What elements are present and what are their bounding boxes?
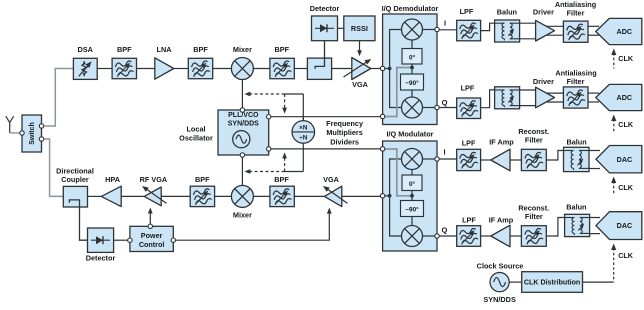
svg-text:RSSI: RSSI xyxy=(351,24,368,33)
detector RX xyxy=(312,16,338,41)
svg-text:I/Q Modulator: I/Q Modulator xyxy=(386,130,433,139)
svg-text:CLK: CLK xyxy=(618,183,634,192)
label BPF xyxy=(274,45,289,54)
wire demod I out xyxy=(423,29,435,31)
wire PLL to demod LO xyxy=(271,116,381,118)
block RSSI xyxy=(344,16,375,41)
wire TXmixer-BPF xyxy=(253,195,270,197)
wire filter-balun TX Q xyxy=(546,218,564,237)
wire DSA-BPF xyxy=(97,68,112,70)
antenna xyxy=(6,116,20,133)
label VGA xyxy=(352,80,369,89)
clock arrow DAC I xyxy=(611,177,634,195)
wire mod I in xyxy=(423,158,435,160)
svg-text:Dividers: Dividers xyxy=(330,137,359,146)
wire balun-DAC Q xyxy=(590,218,600,234)
label I/Q Modulator xyxy=(386,130,433,139)
amplifier IF Amp TX I xyxy=(491,149,510,171)
wire LPF-balun I xyxy=(481,23,495,30)
svg-text:Detector: Detector xyxy=(86,254,116,263)
antialiasing filter RX I xyxy=(563,21,588,42)
wire coupler-VGA xyxy=(332,68,352,70)
label Driver xyxy=(533,77,554,86)
switch terminal bottom right xyxy=(39,137,43,141)
svg-text:I: I xyxy=(444,19,446,28)
wire RFVGA-BPF xyxy=(161,195,190,197)
wire mod-LPF TX Q xyxy=(439,235,457,237)
svg-text:−90°: −90° xyxy=(405,79,419,87)
svg-text:LPF: LPF xyxy=(462,216,476,225)
label HPA xyxy=(105,175,121,184)
label VGA TX xyxy=(323,175,340,184)
junction LO modulator xyxy=(410,194,414,198)
balun RX I xyxy=(495,20,520,42)
label Local Oscillator xyxy=(179,125,213,143)
wire LPF-balun Q xyxy=(481,90,495,108)
phase shift -90deg mod xyxy=(401,201,424,217)
low-pass filter RX Q xyxy=(457,98,481,119)
wire CLKdist to DAC clock xyxy=(583,281,614,283)
mixer mod Q xyxy=(402,226,423,247)
label I mod in xyxy=(443,148,445,157)
switch SW1 xyxy=(22,115,42,152)
wire mod Q in xyxy=(423,235,435,237)
label DSA xyxy=(77,45,93,54)
low-pass filter TX Q xyxy=(457,226,481,247)
wire BPF-LNA xyxy=(137,68,155,70)
wire demod-LPF Q xyxy=(439,107,457,109)
svg-text:LPF: LPF xyxy=(460,7,474,16)
wire balun-driver I xyxy=(520,23,537,39)
svg-text:Clock Source: Clock Source xyxy=(477,262,524,271)
mixer TX xyxy=(231,185,253,207)
amplifier VGA TX xyxy=(321,184,347,207)
label Reconst. Filter Q xyxy=(518,204,549,222)
label Balun xyxy=(566,138,586,147)
svg-text:BPF: BPF xyxy=(274,45,289,54)
frequency multiplier/divider xN xyxy=(292,94,315,172)
svg-text:BPF: BPF xyxy=(117,45,132,54)
mixer mod I xyxy=(402,149,423,170)
label Reconst. Filter I xyxy=(518,127,549,145)
block I/Q modulator xyxy=(383,141,437,251)
wire filter-ADC Q xyxy=(588,93,599,102)
svg-text:Coupler: Coupler xyxy=(61,175,89,184)
clock arrow ADC I xyxy=(611,49,634,69)
svg-text:×N: ×N xyxy=(299,125,308,132)
svg-text:RF VGA: RF VGA xyxy=(140,175,168,184)
terminal PLL top xyxy=(240,108,244,112)
svg-text:SYN/DDS: SYN/DDS xyxy=(228,120,259,127)
svg-text:ADC: ADC xyxy=(617,27,633,36)
wire PLL to modulator LO xyxy=(271,148,381,150)
amplifier LNA xyxy=(155,58,174,79)
clock arrow ADC Q xyxy=(611,115,634,134)
block I/Q demodulator xyxy=(383,14,437,125)
wire LNA-BPF xyxy=(174,68,189,70)
wire switch to directional coupler xyxy=(44,139,63,196)
wire LPF-IFamp TX Q xyxy=(481,235,491,237)
svg-text:Local: Local xyxy=(186,125,205,134)
label LNA xyxy=(157,45,173,54)
wire powercontrol to TX VGA xyxy=(176,208,332,241)
svg-text:Q: Q xyxy=(441,226,447,235)
svg-text:LPF: LPF xyxy=(462,139,476,148)
svg-text:Detector: Detector xyxy=(310,4,340,13)
svg-text:Driver: Driver xyxy=(533,8,554,17)
wire RF split demod xyxy=(390,30,402,108)
svg-text:0°: 0° xyxy=(409,53,416,61)
switch terminal top right xyxy=(39,124,43,128)
svg-text:Mixer: Mixer xyxy=(233,211,252,220)
svg-text:PLL/VCO: PLL/VCO xyxy=(228,112,259,119)
svg-text:Filter: Filter xyxy=(567,77,585,86)
block power control xyxy=(130,226,173,251)
dashed feedback lower xyxy=(244,169,303,174)
wire driver-filter Q xyxy=(545,93,563,102)
clock arrow DAC Q xyxy=(611,244,634,283)
svg-text:VGA: VGA xyxy=(323,175,340,184)
svg-text:Driver: Driver xyxy=(533,77,554,86)
label BPF xyxy=(193,45,208,54)
dashed feedback upper xyxy=(244,92,303,97)
junction RF modulator xyxy=(388,194,392,198)
wire demod-LPF I xyxy=(439,29,457,31)
amplifier driver RX I xyxy=(536,20,555,41)
block CLK distribution xyxy=(522,272,583,293)
wire BPF-coupler xyxy=(294,68,307,70)
wire LO route demod xyxy=(385,68,410,117)
band-pass filter BPF3 xyxy=(270,58,294,78)
svg-text:BPF: BPF xyxy=(195,175,210,184)
label BPF xyxy=(274,175,289,184)
svg-text:Oscillator: Oscillator xyxy=(179,134,213,143)
wire driver-filter I xyxy=(545,26,563,35)
svg-text:I: I xyxy=(443,148,445,157)
wire IFamp-filter TX Q xyxy=(510,235,521,237)
wire RF in demod xyxy=(385,68,390,70)
svg-text:0°: 0° xyxy=(409,180,416,188)
wire -90-to-mixer mod xyxy=(411,217,413,226)
terminal mod LO in xyxy=(380,147,384,151)
phase shift 0deg mod xyxy=(402,175,422,191)
band-pass filter BPF1 xyxy=(112,58,136,78)
label LPF xyxy=(460,7,474,16)
wire 0-to-mixer mod xyxy=(411,170,413,176)
wire coupler-HPA xyxy=(88,195,102,197)
svg-text:Balun: Balun xyxy=(497,8,517,17)
wire 0-to-mixer demod xyxy=(411,40,413,49)
terminal demod Q xyxy=(435,105,439,109)
wire LO to phase splitter demod xyxy=(411,64,413,74)
terminal demod LO in xyxy=(380,114,384,118)
amplifier RF VGA xyxy=(140,184,166,206)
amplifier VGA RX xyxy=(344,57,373,80)
svg-text:Power: Power xyxy=(141,231,163,240)
wire RF combine modulator xyxy=(390,159,402,236)
wire mixer-PLL xyxy=(241,80,243,108)
oscillator SYN/DDS xyxy=(490,273,509,292)
svg-text:Filter: Filter xyxy=(525,212,543,221)
terminal PLL right lower xyxy=(267,147,271,151)
svg-text:BPF: BPF xyxy=(274,175,289,184)
amplifier IF Amp TX Q xyxy=(491,225,510,247)
svg-text:CLK Distribution: CLK Distribution xyxy=(524,279,580,287)
balun TX I xyxy=(564,147,590,171)
wire filter-ADC I xyxy=(588,26,599,35)
terminal PLL right upper xyxy=(267,115,271,119)
svg-text:Multipliers: Multipliers xyxy=(326,128,363,137)
wire -90-to-mixer demod xyxy=(411,90,413,97)
wire IFamp-filter TX I xyxy=(510,159,521,161)
wire RF out modulator xyxy=(385,195,390,197)
wire oscillator-CLKdist xyxy=(509,281,522,283)
label IF Amp xyxy=(489,216,514,225)
reconstruction filter TX I xyxy=(521,149,546,170)
phase shift -90deg demod xyxy=(401,74,424,90)
label LPF xyxy=(461,84,475,93)
wire BPF-TXVGA xyxy=(294,195,324,197)
wire BPF-TXmixer xyxy=(215,195,232,197)
svg-text:−90°: −90° xyxy=(405,206,419,214)
phase shift 0deg demod xyxy=(402,49,422,65)
svg-text:Frequency: Frequency xyxy=(326,119,364,128)
label I/Q Demodulator xyxy=(382,4,439,13)
attenuator DSA xyxy=(73,58,97,79)
wire LO to phase splitter mod xyxy=(411,191,413,201)
amplifier driver RX Q xyxy=(536,87,555,108)
svg-text:CLK: CLK xyxy=(618,251,634,260)
label IF Amp xyxy=(489,138,514,147)
ADC Q xyxy=(596,84,642,110)
label Antialiasing Filter I xyxy=(555,0,596,18)
terminal PLL bottom xyxy=(240,153,244,157)
label I demod out xyxy=(444,19,446,28)
label BPF xyxy=(117,45,132,54)
svg-text:Filter: Filter xyxy=(567,9,585,18)
wire filter-balun TX I xyxy=(546,151,563,161)
svg-text:VGA: VGA xyxy=(352,80,369,89)
dashed branch to modulator LO wire xyxy=(282,152,287,171)
band-pass filter TX1 xyxy=(190,186,214,206)
label Q mod in xyxy=(441,226,447,235)
wire VGA-demodulator xyxy=(371,68,381,70)
label Detector xyxy=(310,4,340,13)
block PLL/VCO SYN/DDS xyxy=(218,110,269,155)
label Driver xyxy=(533,8,554,17)
DAC I xyxy=(596,146,642,173)
wire PLL-TX mixer xyxy=(241,157,243,185)
svg-text:DSA: DSA xyxy=(77,45,93,54)
wire switch to DSA xyxy=(44,69,74,127)
label Directional Coupler xyxy=(56,167,94,185)
DAC Q xyxy=(596,212,642,240)
wire LO route modulator xyxy=(385,149,410,196)
wire RSSI to VGA gain control xyxy=(357,41,362,57)
svg-text:Q: Q xyxy=(442,98,448,107)
label BPF xyxy=(195,175,210,184)
terminal power control right xyxy=(171,238,175,242)
svg-text:I/Q Demodulator: I/Q Demodulator xyxy=(382,4,439,13)
wire HPA-RFVGA xyxy=(121,195,144,197)
label LPF xyxy=(462,216,476,225)
amplifier HPA xyxy=(101,186,121,206)
terminal mod Q xyxy=(435,234,439,238)
detector TX xyxy=(88,228,114,252)
wire balun-DAC I xyxy=(589,151,600,169)
label Mixer xyxy=(233,45,252,54)
svg-text:LPF: LPF xyxy=(461,84,475,93)
terminal mod RF out xyxy=(380,194,384,198)
svg-text:LNA: LNA xyxy=(157,45,173,54)
directional coupler symbol xyxy=(69,200,87,240)
wire balun-driver Q xyxy=(520,90,537,106)
svg-text:BPF: BPF xyxy=(193,45,208,54)
antialiasing filter RX Q xyxy=(563,87,588,108)
balun RX Q xyxy=(495,87,520,109)
svg-text:SYN/DDS: SYN/DDS xyxy=(483,295,516,304)
label SYN/DDS xyxy=(483,295,516,304)
svg-text:Balun: Balun xyxy=(566,203,586,212)
wire mod-LPF TX I xyxy=(439,158,457,160)
junction LO demod xyxy=(410,66,414,70)
svg-text:Control: Control xyxy=(139,240,165,249)
mixer RX xyxy=(231,58,253,80)
balun TX Q xyxy=(565,214,590,236)
svg-text:DAC: DAC xyxy=(617,221,633,230)
low-pass filter RX I xyxy=(457,20,481,41)
mixer demod Q xyxy=(402,97,423,118)
coupler RX tap xyxy=(307,58,331,79)
svg-text:HPA: HPA xyxy=(105,175,121,184)
dashed branch to demod LO wire xyxy=(282,94,287,114)
svg-text:Filter: Filter xyxy=(525,136,543,145)
directional coupler xyxy=(63,186,87,207)
terminal power control top xyxy=(148,224,152,228)
label Clock Source xyxy=(477,262,524,271)
band-pass filter TX2 xyxy=(270,186,294,206)
svg-text:IF Amp: IF Amp xyxy=(489,138,514,147)
svg-text:DAC: DAC xyxy=(617,155,633,164)
junction RF demod xyxy=(388,67,392,71)
label Mixer TX xyxy=(233,211,252,220)
wire detector-powercontrol xyxy=(114,239,128,241)
mixer demod I xyxy=(402,19,423,40)
label Balun xyxy=(497,8,517,17)
svg-text:IF Amp: IF Amp xyxy=(489,216,514,225)
svg-text:ADC: ADC xyxy=(617,93,633,102)
label LPF xyxy=(462,139,476,148)
terminal demod I xyxy=(435,27,439,31)
label Antialiasing Filter Q xyxy=(555,69,596,87)
wire detector-RSSI xyxy=(338,27,344,29)
wire BPF-mixer xyxy=(213,68,232,70)
svg-text:CLK: CLK xyxy=(618,54,634,63)
wire mixer-BPF xyxy=(253,68,270,70)
terminal power control left xyxy=(128,238,132,242)
switch terminal left xyxy=(20,131,24,135)
low-pass filter TX I xyxy=(457,149,481,170)
reconstruction filter TX Q xyxy=(521,226,546,247)
label Detector xyxy=(86,254,116,263)
ADC I xyxy=(596,18,642,44)
terminal mod I xyxy=(435,157,439,161)
band-pass filter BPF2 xyxy=(188,58,212,78)
label Frequency Multipliers Dividers xyxy=(326,119,364,146)
label Balun xyxy=(566,203,586,212)
terminal demod RF in xyxy=(380,66,384,70)
wire powercontrol to RF VGA xyxy=(148,208,153,225)
wire demod Q out xyxy=(423,107,435,109)
label RF VGA xyxy=(140,175,168,184)
wire TXVGA-modulator xyxy=(342,195,381,197)
svg-text:Mixer: Mixer xyxy=(233,45,252,54)
wire LPF-IFamp TX I xyxy=(481,159,491,161)
svg-text:÷N: ÷N xyxy=(299,135,307,142)
label Q demod out xyxy=(442,98,448,107)
svg-text:Switch: Switch xyxy=(29,122,36,145)
svg-text:CLK: CLK xyxy=(618,120,634,129)
svg-text:Balun: Balun xyxy=(566,138,586,147)
coupler RX tap symbol xyxy=(315,41,324,69)
